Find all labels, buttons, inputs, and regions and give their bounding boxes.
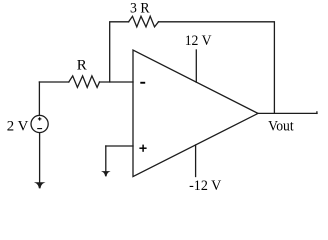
svg-text:Vout: Vout: [268, 119, 294, 135]
svg-text:3 R: 3 R: [130, 1, 150, 17]
svg-text:2 V: 2 V: [7, 119, 29, 135]
svg-text:12 V: 12 V: [185, 33, 212, 49]
svg-text:R: R: [77, 58, 87, 74]
svg-text:-12 V: -12 V: [189, 178, 221, 194]
